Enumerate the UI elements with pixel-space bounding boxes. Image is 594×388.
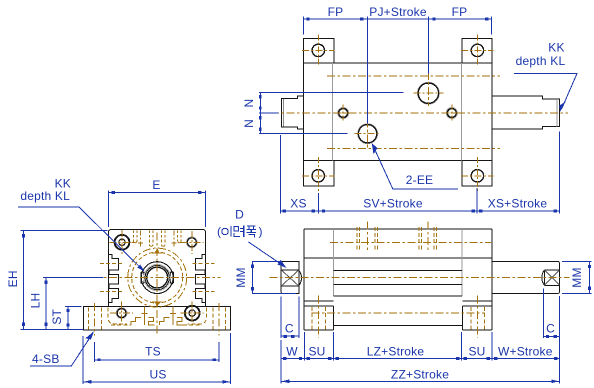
tab hole top-right — [471, 44, 483, 56]
svg-text:(: ( — [217, 225, 221, 239]
bore circle mid — [145, 266, 169, 290]
svg-text:FP: FP — [452, 5, 468, 19]
svg-text:SV+Stroke: SV+Stroke — [363, 196, 423, 210]
slot hidden row lower right — [192, 291, 214, 293]
port hole (large circle) — [417, 82, 439, 104]
corner hole crosshairs BL — [110, 312, 133, 314]
left rod square end — [281, 261, 299, 293]
N extension middle — [259, 112, 279, 114]
svg-text:D: D — [235, 208, 244, 222]
MM dimension left — [252, 261, 254, 294]
left flange plate — [303, 229, 305, 330]
tab hole centerline BL — [317, 157, 319, 192]
N extension bottom (to hexagon row) — [259, 133, 348, 135]
quadrant arrow top — [155, 248, 160, 254]
KK leader — [514, 74, 577, 110]
extension body left — [302, 17, 304, 35]
small hole right crosshair — [443, 112, 460, 114]
right rod flats — [544, 269, 559, 271]
extension rod left end — [280, 135, 282, 214]
rod wrench flat left — [141, 272, 144, 284]
svg-text:MM: MM — [570, 267, 584, 287]
EH dimension — [23, 231, 25, 330]
bore circle gray — [144, 264, 170, 290]
extension hexagon column — [367, 17, 369, 124]
svg-text:W: W — [286, 344, 298, 358]
corner hole crosshairs TR — [180, 241, 203, 243]
right rod X cross — [545, 270, 560, 285]
left rod flats — [281, 269, 299, 271]
main axis centerline — [270, 277, 570, 279]
corner hole TL (counterbored) — [115, 235, 130, 250]
slot hidden row lower left — [100, 291, 122, 293]
base hidden hole right — [212, 308, 214, 330]
lower hidden band centerline — [312, 312, 485, 314]
mounting tab bottom-right — [462, 161, 492, 186]
svg-text:SU: SU — [308, 344, 325, 358]
svg-text:PJ+Stroke: PJ+Stroke — [369, 5, 427, 19]
hidden screw hole 2 — [427, 222, 429, 251]
svg-text:LZ+Stroke: LZ+Stroke — [367, 344, 425, 358]
mounting tab top-right — [462, 38, 492, 63]
US dimension — [83, 381, 230, 383]
extension rod right end — [558, 132, 560, 214]
svg-text:N: N — [242, 99, 256, 108]
mounting tab top-left — [303, 38, 334, 63]
base bottom hidden line right — [183, 324, 202, 326]
bolt circle dashed — [132, 252, 183, 303]
corner hole TR — [187, 237, 198, 248]
base hole centerline right (SB) — [218, 303, 220, 336]
right rod — [492, 96, 560, 129]
top band bottom line — [304, 257, 492, 259]
XS / SV+Stroke dimension line — [281, 210, 560, 212]
hangul 이 — [222, 226, 231, 237]
slot hidden row upper left — [100, 263, 122, 265]
centerline row upper — [327, 75, 500, 77]
quadrant arrow bottom — [155, 302, 160, 308]
base hole centerline left (SB) — [93, 303, 95, 336]
right foot hidden hole — [470, 307, 472, 330]
corner hole crosshairs TL — [110, 241, 135, 243]
centerline main axis — [271, 112, 568, 114]
bore crosshair horizontal — [94, 277, 221, 279]
svg-text:): ) — [259, 225, 263, 239]
hidden body corner right — [187, 308, 206, 324]
tab hole centerline BR — [476, 157, 478, 192]
svg-text:depth KL: depth KL — [20, 189, 70, 203]
svg-text:depth KL: depth KL — [516, 54, 566, 68]
svg-text:C: C — [546, 321, 555, 335]
small hole left crosshair — [335, 112, 352, 114]
bore crosshair vertical — [156, 233, 158, 335]
svg-text:US: US — [149, 367, 166, 381]
leader to square — [249, 242, 285, 267]
C dimension right — [543, 289, 545, 339]
centerline row lower — [327, 148, 500, 150]
svg-text:2-EE: 2-EE — [406, 173, 433, 187]
small hole right — [446, 107, 457, 118]
svg-text:XS: XS — [290, 196, 306, 210]
rod wrench flat right — [170, 272, 173, 284]
left rod bulge arc — [299, 271, 301, 286]
svg-text:E: E — [152, 178, 160, 192]
tube lines — [334, 270, 463, 272]
top face hidden slots — [133, 231, 181, 245]
svg-text:W+Stroke: W+Stroke — [498, 344, 553, 358]
tab inner edge (gray, right) — [460, 63, 462, 161]
right rod end double line — [556, 99, 558, 127]
bolt circle dash-dot — [128, 248, 187, 307]
MM dimension right — [589, 261, 591, 294]
svg-text:MM: MM — [234, 267, 248, 287]
tab hole bottom-left — [312, 170, 324, 182]
N arrows — [259, 95, 262, 98]
svg-text:ZZ+Stroke: ZZ+Stroke — [391, 367, 449, 381]
tab hole top-left — [312, 44, 324, 56]
base bottom hidden line left — [111, 324, 131, 326]
base flange — [83, 307, 230, 331]
corner hole BL — [116, 308, 127, 319]
left rod stub — [281, 96, 303, 129]
slot hidden motif left — [131, 306, 155, 325]
hidden body corner left — [108, 308, 127, 324]
rod thread circle KK — [147, 267, 168, 288]
small hole left — [338, 107, 349, 118]
hidden screw hole 1 — [367, 222, 369, 251]
2-EE leader — [373, 145, 458, 189]
hangul 폭 — [247, 226, 257, 238]
extension body right — [491, 17, 493, 35]
C dimension left — [280, 297, 282, 339]
slot hidden motif right — [160, 306, 184, 325]
svg-text:TS: TS — [145, 345, 161, 359]
ZZ+Stroke dimension — [281, 380, 560, 382]
W SU LZ dimension line — [281, 357, 560, 359]
N extension top (to large circle row) — [259, 91, 404, 93]
left sensor slot profile — [108, 255, 118, 303]
center bore outer circle — [141, 262, 173, 294]
large circle crosshair — [414, 92, 444, 94]
svg-text:SU: SU — [468, 344, 485, 358]
svg-text:KK: KK — [548, 40, 564, 54]
arrows bottom dim — [283, 210, 286, 213]
tab hole centerline TR — [476, 35, 478, 67]
right flange plate — [491, 229, 493, 330]
TS dimension — [94, 359, 219, 361]
mounting tab bottom-left — [303, 161, 334, 186]
left rod end double line — [282, 99, 284, 127]
arrows top dim — [306, 18, 309, 21]
svg-text:XS+Stroke: XS+Stroke — [488, 196, 548, 210]
hexagon crosshair — [355, 133, 381, 135]
base hidden hole left — [88, 308, 90, 330]
cylinder body (front view) — [108, 230, 205, 307]
body top edge — [304, 228, 492, 230]
LH dimension — [45, 278, 47, 330]
right rod — [492, 261, 560, 293]
hexagon socket hole 2-EE — [358, 124, 378, 144]
corner hole BR (counterbored) — [185, 306, 200, 321]
top band centerline — [330, 241, 491, 243]
svg-text:LH: LH — [28, 293, 42, 309]
svg-text:ST: ST — [50, 308, 64, 324]
svg-text:EH: EH — [6, 270, 20, 287]
hangul 면 — [234, 226, 244, 238]
Korean label (이면폭) — [217, 225, 263, 239]
left foot hidden hole — [311, 307, 313, 330]
extension large circle column — [428, 17, 430, 74]
right sensor slot profile — [196, 255, 206, 303]
left rod X cross — [282, 270, 299, 286]
E dimension — [108, 191, 205, 193]
tab hole bottom-right — [471, 170, 483, 182]
left foot — [332, 306, 334, 330]
FP / PJ+Stroke dimension line — [303, 18, 491, 20]
corner hole crosshairs BR — [181, 312, 204, 314]
N dimension line — [259, 92, 261, 133]
extension right tab hole column — [476, 188, 478, 214]
ST dimension — [67, 307, 69, 330]
right foot — [461, 306, 463, 330]
svg-text:N: N — [242, 119, 256, 128]
extension left tab hole column — [317, 193, 319, 214]
tab hole centerline TL — [317, 35, 319, 67]
svg-text:C: C — [285, 321, 294, 335]
right rod bulge arc — [542, 270, 544, 285]
cylinder body (top view) — [303, 63, 492, 161]
svg-text:4-SB: 4-SB — [32, 352, 59, 366]
svg-text:FP: FP — [328, 5, 344, 19]
tab inner edge (gray, left) — [332, 63, 334, 161]
slot hidden row upper right — [192, 263, 214, 265]
